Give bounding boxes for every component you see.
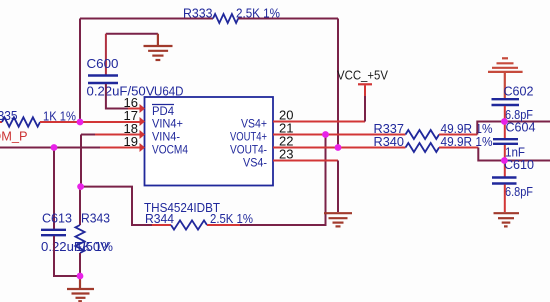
resistor R343	[79, 187, 81, 225]
svg-text:VIN4+: VIN4+	[152, 119, 183, 131]
wire pin23 VS4- to ground	[273, 160, 338, 162]
wire R337 to out node	[439, 134, 477, 136]
power symbol top-right (inverted ground)	[488, 58, 523, 98]
wire R333 right vertical to VOUT4-	[337, 19, 339, 148]
ground pin23	[324, 213, 352, 226]
svg-text:COM_P: COM_P	[0, 129, 28, 144]
capacitor C602	[492, 84, 534, 122]
capacitor C604	[493, 121, 536, 161]
svg-text:C600: C600	[87, 57, 119, 71]
wire R333 left vertical to VIN4+	[79, 19, 81, 123]
resistor R340	[406, 143, 440, 152]
ground near C600	[144, 34, 173, 60]
junction node out- / C604 / C610	[501, 157, 508, 164]
junction node out+ / C602 / C604	[501, 118, 508, 125]
wire C613 bottom to ground node	[54, 236, 80, 276]
junction node VIN4+ / R335 / R333	[77, 119, 84, 126]
junction node VOCM4 / C613	[51, 144, 58, 151]
ground bottom-left	[67, 276, 94, 301]
wire pin20 VS4+ to VCC	[273, 121, 365, 123]
wire pin18 vertical down to node	[80, 135, 82, 187]
wire top feedback horizontal	[80, 18, 213, 20]
svg-text:VIN4-: VIN4-	[152, 132, 180, 144]
pin arrow 19	[140, 143, 146, 152]
power VCC_+5V	[364, 85, 366, 96]
capacitor C613	[41, 148, 110, 255]
svg-text:R343: R343	[81, 212, 110, 226]
svg-text:VOUT4-: VOUT4-	[230, 145, 267, 157]
op-amp U64D THS4524 box	[145, 97, 274, 186]
svg-text:VOUT4+: VOUT4+	[230, 132, 267, 144]
pin arrow 16	[140, 104, 146, 113]
svg-text:VS4-: VS4-	[243, 158, 267, 170]
svg-text:R344: R344	[145, 212, 174, 226]
svg-text:2.5K 1%: 2.5K 1%	[236, 7, 280, 21]
junction node VIN4- / R343 / R344	[77, 183, 84, 190]
wire R340 to out node	[439, 147, 478, 149]
capacitor C600	[87, 34, 158, 99]
resistor R337	[406, 130, 440, 139]
svg-text:R335: R335	[0, 109, 18, 123]
junction node ground / R343 / C613	[77, 273, 84, 280]
resistor R335	[0, 121, 2, 123]
svg-text:23: 23	[279, 147, 293, 162]
wire C600 to pin16	[106, 84, 128, 109]
pin arrow 17	[140, 117, 146, 126]
svg-text:C613: C613	[42, 212, 72, 226]
wire pin21 VOUT4+	[273, 134, 406, 136]
pin arrow 18	[140, 130, 146, 139]
svg-text:R333: R333	[183, 7, 213, 21]
wire pin18 VIN4-	[81, 134, 95, 136]
junction node VOUT4- / R333	[335, 144, 342, 151]
resistor R344	[171, 220, 207, 229]
svg-text:PD4: PD4	[152, 106, 175, 118]
svg-text:U64D: U64D	[154, 85, 184, 99]
capacitor C610	[492, 158, 534, 199]
svg-text:R340: R340	[374, 135, 405, 149]
svg-text:VS4+: VS4+	[241, 119, 267, 131]
svg-text:VOCM4: VOCM4	[152, 145, 189, 157]
junction node VOUT4+ / R344	[322, 131, 329, 138]
wire R344 to VOUT4+ junction	[207, 224, 240, 226]
svg-text:C610: C610	[504, 158, 534, 172]
svg-text:C604: C604	[506, 121, 536, 135]
wire node to R344	[80, 187, 152, 225]
wire R335 to VIN4+ pin17	[40, 121, 140, 123]
svg-text:VCC_+5V: VCC_+5V	[337, 69, 389, 83]
svg-text:C602: C602	[504, 84, 534, 98]
svg-text:6.8pF: 6.8pF	[505, 185, 533, 199]
wire pin19 VOCM4 from left edge	[0, 147, 100, 149]
wire pin22 VOUT4-	[273, 147, 406, 149]
svg-text:2.5K 1%: 2.5K 1%	[210, 212, 253, 226]
resistor R333	[213, 14, 238, 23]
svg-text:R337: R337	[374, 122, 405, 136]
ground C610	[494, 213, 520, 226]
svg-text:1K 1%: 1K 1%	[76, 240, 114, 254]
